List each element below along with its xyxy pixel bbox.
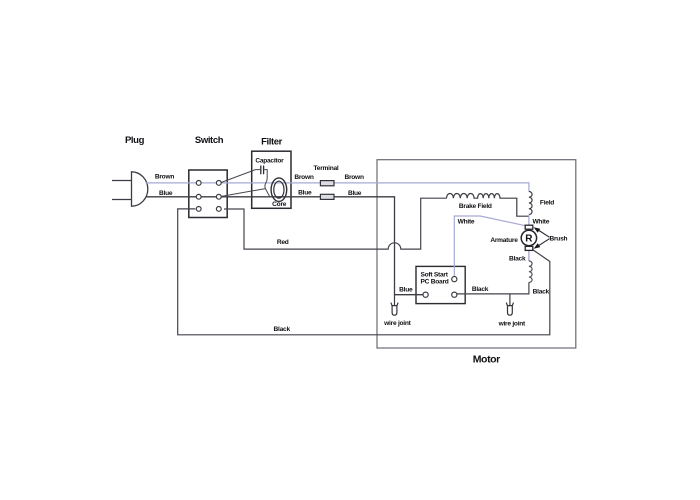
wire brown main (plug to field, periwinkle) bbox=[146, 183, 529, 192]
brush pointer line bottom bbox=[538, 239, 550, 247]
svg-text:Armature: Armature bbox=[490, 237, 518, 244]
wire blue main (plug to board) bbox=[146, 197, 423, 295]
armature circle bbox=[521, 230, 536, 245]
wire lower coil to board black bbox=[457, 282, 529, 294]
svg-text:Blue: Blue bbox=[298, 189, 312, 196]
wire joint symbol left bbox=[391, 303, 398, 316]
core toroid outer bbox=[271, 178, 287, 202]
brush arrowhead top bbox=[534, 227, 541, 233]
svg-text:Red: Red bbox=[277, 239, 289, 246]
svg-text:Brown: Brown bbox=[294, 174, 313, 181]
board terminal circles bbox=[423, 277, 457, 298]
svg-text:wire joint: wire joint bbox=[498, 320, 526, 327]
brake field coil L1 bbox=[447, 193, 529, 216]
plug prong top bbox=[112, 180, 132, 182]
svg-text:Brake Field: Brake Field bbox=[459, 203, 492, 210]
svg-text:White: White bbox=[458, 218, 475, 225]
core toroid inner bbox=[274, 181, 284, 198]
switch contact circles bbox=[196, 181, 221, 212]
plug prong bottom bbox=[112, 199, 132, 201]
svg-text:R: R bbox=[525, 234, 533, 245]
brush arrowhead bottom bbox=[534, 243, 541, 249]
svg-text:Terminal: Terminal bbox=[314, 165, 339, 172]
svg-text:PC Board: PC Board bbox=[421, 278, 449, 285]
capacitor C1 lead left diagonal bbox=[221, 170, 260, 183]
svg-text:Field: Field bbox=[540, 200, 554, 207]
svg-text:Blue: Blue bbox=[399, 287, 413, 294]
svg-text:Filter: Filter bbox=[261, 137, 283, 148]
svg-text:Plug: Plug bbox=[125, 135, 145, 146]
capacitor C1 plates bbox=[261, 166, 264, 175]
soft start PC board box bbox=[416, 266, 465, 303]
svg-text:Black: Black bbox=[274, 326, 291, 333]
svg-text:Switch: Switch bbox=[195, 135, 224, 146]
svg-text:Blue: Blue bbox=[348, 190, 362, 197]
filter box bbox=[252, 151, 291, 208]
capacitor C1 lead right bbox=[264, 170, 270, 197]
svg-text:Capacitor: Capacitor bbox=[255, 157, 284, 164]
motor box bbox=[377, 160, 576, 348]
field coil L2 bbox=[529, 191, 532, 214]
wire bottom brush to lower coil bbox=[528, 250, 530, 261]
armature lower coil L3 bbox=[529, 261, 532, 282]
svg-text:Core: Core bbox=[272, 201, 287, 208]
capacitor lead blue diagonal bbox=[221, 189, 265, 197]
wire field to top brush bbox=[528, 215, 530, 226]
svg-text:Black: Black bbox=[472, 286, 489, 293]
svg-text:Black: Black bbox=[509, 255, 526, 262]
svg-text:Motor: Motor bbox=[473, 353, 500, 365]
wire black return (bottom brush to switch) bbox=[178, 209, 550, 335]
wire joint symbol right bbox=[506, 303, 513, 316]
svg-text:Brown: Brown bbox=[155, 173, 174, 180]
brush pointer line top bbox=[538, 230, 550, 238]
armature top brush bbox=[525, 225, 533, 229]
switch S1 box bbox=[189, 170, 227, 218]
wire joint right stub bbox=[509, 294, 511, 307]
wire white (board to top brush) bbox=[454, 216, 526, 277]
svg-text:White: White bbox=[532, 219, 549, 226]
svg-text:Black: Black bbox=[533, 288, 550, 295]
terminal block bottom bbox=[320, 194, 334, 199]
svg-text:Soft Start: Soft Start bbox=[421, 271, 449, 278]
svg-text:Brush: Brush bbox=[549, 235, 567, 242]
svg-text:Brown: Brown bbox=[344, 174, 363, 181]
plug P1 body bbox=[132, 172, 148, 206]
wire joint left stub bbox=[394, 295, 396, 307]
terminal block top bbox=[320, 181, 334, 186]
armature bottom brush bbox=[525, 246, 533, 250]
svg-text:Blue: Blue bbox=[159, 190, 173, 197]
wire red (switch to brake field, with hop) bbox=[224, 198, 447, 249]
svg-text:wire joint: wire joint bbox=[383, 320, 411, 327]
